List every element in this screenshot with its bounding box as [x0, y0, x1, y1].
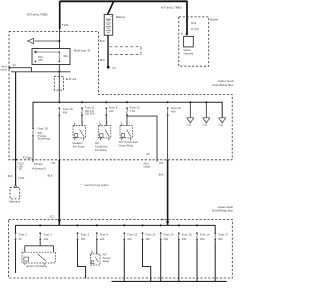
wire: fuse 3 down with jog, exits box	[78, 240, 86, 278]
connector E4 arrow	[9, 66, 12, 69]
under-dash fuse/relay box outline (dashed)	[9, 220, 233, 279]
svg-text:T102: T102	[18, 176, 25, 180]
svg-text:Fuse 1: Fuse 1	[19, 232, 28, 236]
fuse 15 (right group)	[178, 224, 180, 226]
wire: alternator feed	[15, 72, 17, 186]
wire: junction run y=71.5	[11, 71, 71, 73]
starter box (dashed)	[179, 17, 209, 66]
fuse 16 (right group)	[196, 224, 198, 226]
svg-text:7.5A: 7.5A	[130, 109, 136, 113]
arrow to other circuit (left of multi fuse)	[28, 38, 61, 43]
svg-text:Fuse 12: Fuse 12	[130, 106, 140, 110]
svg-text:Fuse/Relay Box: Fuse/Relay Box	[212, 83, 234, 87]
wire: T101 drop from bus	[59, 1, 61, 29]
svg-text:BLK: BLK	[159, 173, 164, 177]
svg-text:Accessory): Accessory)	[38, 137, 51, 141]
svg-text:Alternator: Alternator	[9, 200, 20, 204]
svg-text:Solenoid: Solenoid	[183, 53, 193, 56]
wire: bus drop to starter	[186, 1, 188, 33]
svg-text:10A: 10A	[44, 237, 49, 241]
svg-text:HOT at ALL TIMES: HOT at ALL TIMES	[161, 5, 182, 9]
svg-text:A/C: A/C	[95, 141, 99, 145]
wire: fuse 18 down to B3	[32, 137, 34, 162]
off-page triangle 3	[219, 118, 226, 123]
wire: fuse 13 down with jog to edge	[143, 240, 151, 281]
fuse 19	[58, 101, 60, 103]
ground G1	[107, 66, 110, 69]
svg-text:10A: 10A	[100, 237, 105, 241]
wire: battery negative to ground	[107, 35, 109, 66]
svg-text:BLK: BLK	[48, 173, 53, 177]
wire: fuse 16 down to edge	[196, 240, 198, 281]
wire: E4 into box	[11, 68, 31, 72]
wire: fuse 12 down to edge	[123, 240, 125, 281]
wire: fuse 14 down to edge	[160, 240, 162, 281]
multi fuse internal: horizontal fuse element	[35, 51, 61, 62]
svg-text:Fuse 11: Fuse 11	[85, 106, 95, 110]
svg-text:D4: D4	[146, 152, 150, 156]
fuse 17 (right group)	[214, 232, 216, 240]
svg-text:Fuse 16: Fuse 16	[200, 233, 210, 237]
wire: fuse 2 to ignition coil relay (split)	[25, 240, 54, 252]
svg-text:C741: C741	[186, 125, 192, 127]
svg-text:(Honda: (Honda	[34, 162, 43, 166]
alternator box (dashed)	[10, 187, 20, 199]
fuse 13 (right group)	[142, 224, 144, 226]
svg-text:T104: T104	[191, 22, 197, 25]
fuse 12	[126, 101, 128, 103]
svg-text:13 (V6): 13 (V6)	[191, 28, 199, 31]
svg-text:4: 4	[189, 121, 190, 123]
wire: fuse 15 down to edge	[178, 240, 180, 281]
wire: fuse 20 down, exit D6	[167, 116, 169, 160]
svg-text:30A: 30A	[218, 237, 223, 241]
svg-text:used): used)	[144, 165, 151, 169]
svg-text:Fuse 20: Fuse 20	[171, 106, 181, 110]
svg-text:T101: T101	[62, 23, 69, 27]
svg-text:Ignition Coil Relay: Ignition Coil Relay	[26, 264, 48, 268]
svg-text:15A: 15A	[81, 237, 86, 241]
svg-text:D2: D2	[50, 214, 54, 218]
svg-text:Accessory*): Accessory*)	[32, 166, 46, 170]
fuse 12 (right group)	[123, 224, 125, 226]
svg-text:Fuse 18: Fuse 18	[38, 127, 48, 131]
wire: battery positive top bus	[60, 0, 188, 2]
svg-text:Fuse 2: Fuse 2	[44, 232, 53, 236]
dashed cable box on ground cable	[110, 47, 142, 55]
svg-text:20A: 20A	[164, 237, 169, 241]
svg-text:10A: 10A	[109, 109, 114, 113]
svg-text:Fan Relay: Fan Relay	[73, 145, 86, 149]
svg-text:C742: C742	[202, 125, 208, 127]
svg-text:B: B	[181, 31, 183, 35]
svg-text:Fuse 15: Fuse 15	[182, 233, 192, 237]
svg-text:Starter: Starter	[210, 17, 218, 21]
wire: fuse 19 down, exit D2	[58, 116, 60, 160]
off-page triangle 1	[189, 101, 191, 103]
svg-text:D2: D2	[52, 161, 56, 165]
wire: T101 to multi fuse box	[59, 29, 61, 49]
svg-text:Fuse 17: Fuse 17	[218, 233, 228, 237]
svg-text:20A: 20A	[182, 237, 187, 241]
svg-text:Fuse 12: Fuse 12	[127, 233, 137, 237]
off-page triangle 2	[205, 101, 207, 103]
fuse 4	[96, 224, 98, 226]
svg-text:40A: 40A	[63, 54, 68, 58]
svg-text:D6: D6	[159, 161, 163, 165]
svg-text:ment): ment)	[0, 67, 7, 71]
bottom continuation line	[112, 280, 227, 282]
wire: D6 feed to under-dash (thick)	[167, 160, 169, 225]
svg-text:(V6): (V6)	[38, 58, 43, 62]
multi fuse 33 box	[32, 49, 70, 65]
A/F sensor relay	[91, 250, 101, 265]
starter solenoid	[184, 36, 194, 47]
svg-text:G1: G1	[112, 66, 116, 70]
svg-text:Battery: Battery	[116, 15, 126, 19]
wire: multi fuse down through ELD to bus	[58, 65, 60, 103]
fuse 1	[15, 232, 17, 240]
under-hood bus	[33, 102, 222, 127]
svg-text:40A: 40A	[171, 110, 176, 114]
wire: branch to D4 (not used)	[127, 116, 157, 162]
wire: fuse 17 down to edge	[214, 240, 216, 281]
fuse 14 (right group)	[160, 224, 162, 226]
fuse 9	[105, 101, 107, 103]
fuse 3	[77, 224, 79, 226]
svg-text:Fuse/Relay Box: Fuse/Relay Box	[212, 209, 234, 213]
connector F10 (arrow on box edge)	[14, 159, 17, 162]
radiator fan relay	[73, 122, 85, 140]
svg-text:4: 4	[205, 121, 206, 123]
svg-text:Fuse 4: Fuse 4	[100, 232, 109, 236]
svg-text:BLK: BLK	[100, 39, 105, 43]
wire: fuse 9 to condenser fan relay	[105, 116, 107, 126]
svg-text:Fuse 14: Fuse 14	[164, 233, 174, 237]
svg-text:C743: C743	[218, 125, 224, 127]
svg-text:15A: 15A	[127, 237, 132, 241]
svg-text:Fuse 3: Fuse 3	[81, 232, 90, 236]
svg-text:4: 4	[221, 121, 222, 123]
svg-text:ELD Unit: ELD Unit	[66, 77, 77, 81]
svg-text:15A: 15A	[200, 237, 205, 241]
fuse 20	[167, 101, 169, 103]
svg-text:40A: 40A	[63, 110, 68, 114]
svg-text:5A: 5A	[19, 237, 22, 241]
wire: fuse 1 down	[15, 240, 17, 273]
condenser fan relay	[98, 122, 110, 140]
svg-text:Fuse 9: Fuse 9	[109, 106, 118, 110]
svg-text:20A (V6): 20A (V6)	[85, 112, 95, 116]
svg-text:BLK: BLK	[100, 58, 105, 62]
svg-text:B3: B3	[28, 156, 32, 160]
fuse 2	[39, 224, 41, 226]
fuse 11	[81, 101, 83, 103]
A/C compressor clutch relay	[120, 122, 132, 140]
svg-text:Fan Relay: Fan Relay	[95, 148, 108, 152]
wire: fuse 4 to sensor relay	[96, 240, 98, 254]
wire: fuse 12 to compressor clutch relay	[126, 116, 128, 126]
ignition coil relay	[22, 252, 56, 265]
svg-text:A/C Compressor: A/C Compressor	[119, 140, 139, 144]
alternator terminal circle	[15, 186, 17, 188]
svg-text:Clutch Relay: Clutch Relay	[119, 143, 135, 147]
svg-text:BLK: BLK	[8, 174, 13, 178]
junction dot	[58, 71, 60, 73]
wire: D2 feed to under-dash (thick)	[58, 160, 60, 225]
svg-text:Radiator: Radiator	[73, 141, 83, 145]
svg-text:Relay: Relay	[103, 259, 110, 263]
terminal B dot	[186, 33, 188, 35]
wire: battery to top bus	[108, 2, 114, 15]
svg-text:Multi fuse 33: Multi fuse 33	[74, 48, 91, 52]
battery	[104, 14, 113, 35]
fuse 18	[32, 127, 34, 136]
under-dash bus	[16, 225, 216, 232]
svg-text:HOT at ALL TIMES: HOT at ALL TIMES	[27, 13, 48, 17]
svg-text:Condenser: Condenser	[95, 145, 108, 149]
under-hood fuse/relay box outline (dashed, stepped)	[9, 32, 232, 160]
svg-text:10A: 10A	[145, 237, 150, 241]
svg-text:* : used for Fog Lights: * : used for Fog Lights	[81, 183, 109, 187]
wire: fuse 11 to radiator fan relay	[81, 116, 83, 126]
svg-text:Fuse 13: Fuse 13	[145, 233, 155, 237]
svg-text:Fuse 19: Fuse 19	[63, 107, 73, 111]
ELD unit box (dashed)	[54, 76, 63, 90]
